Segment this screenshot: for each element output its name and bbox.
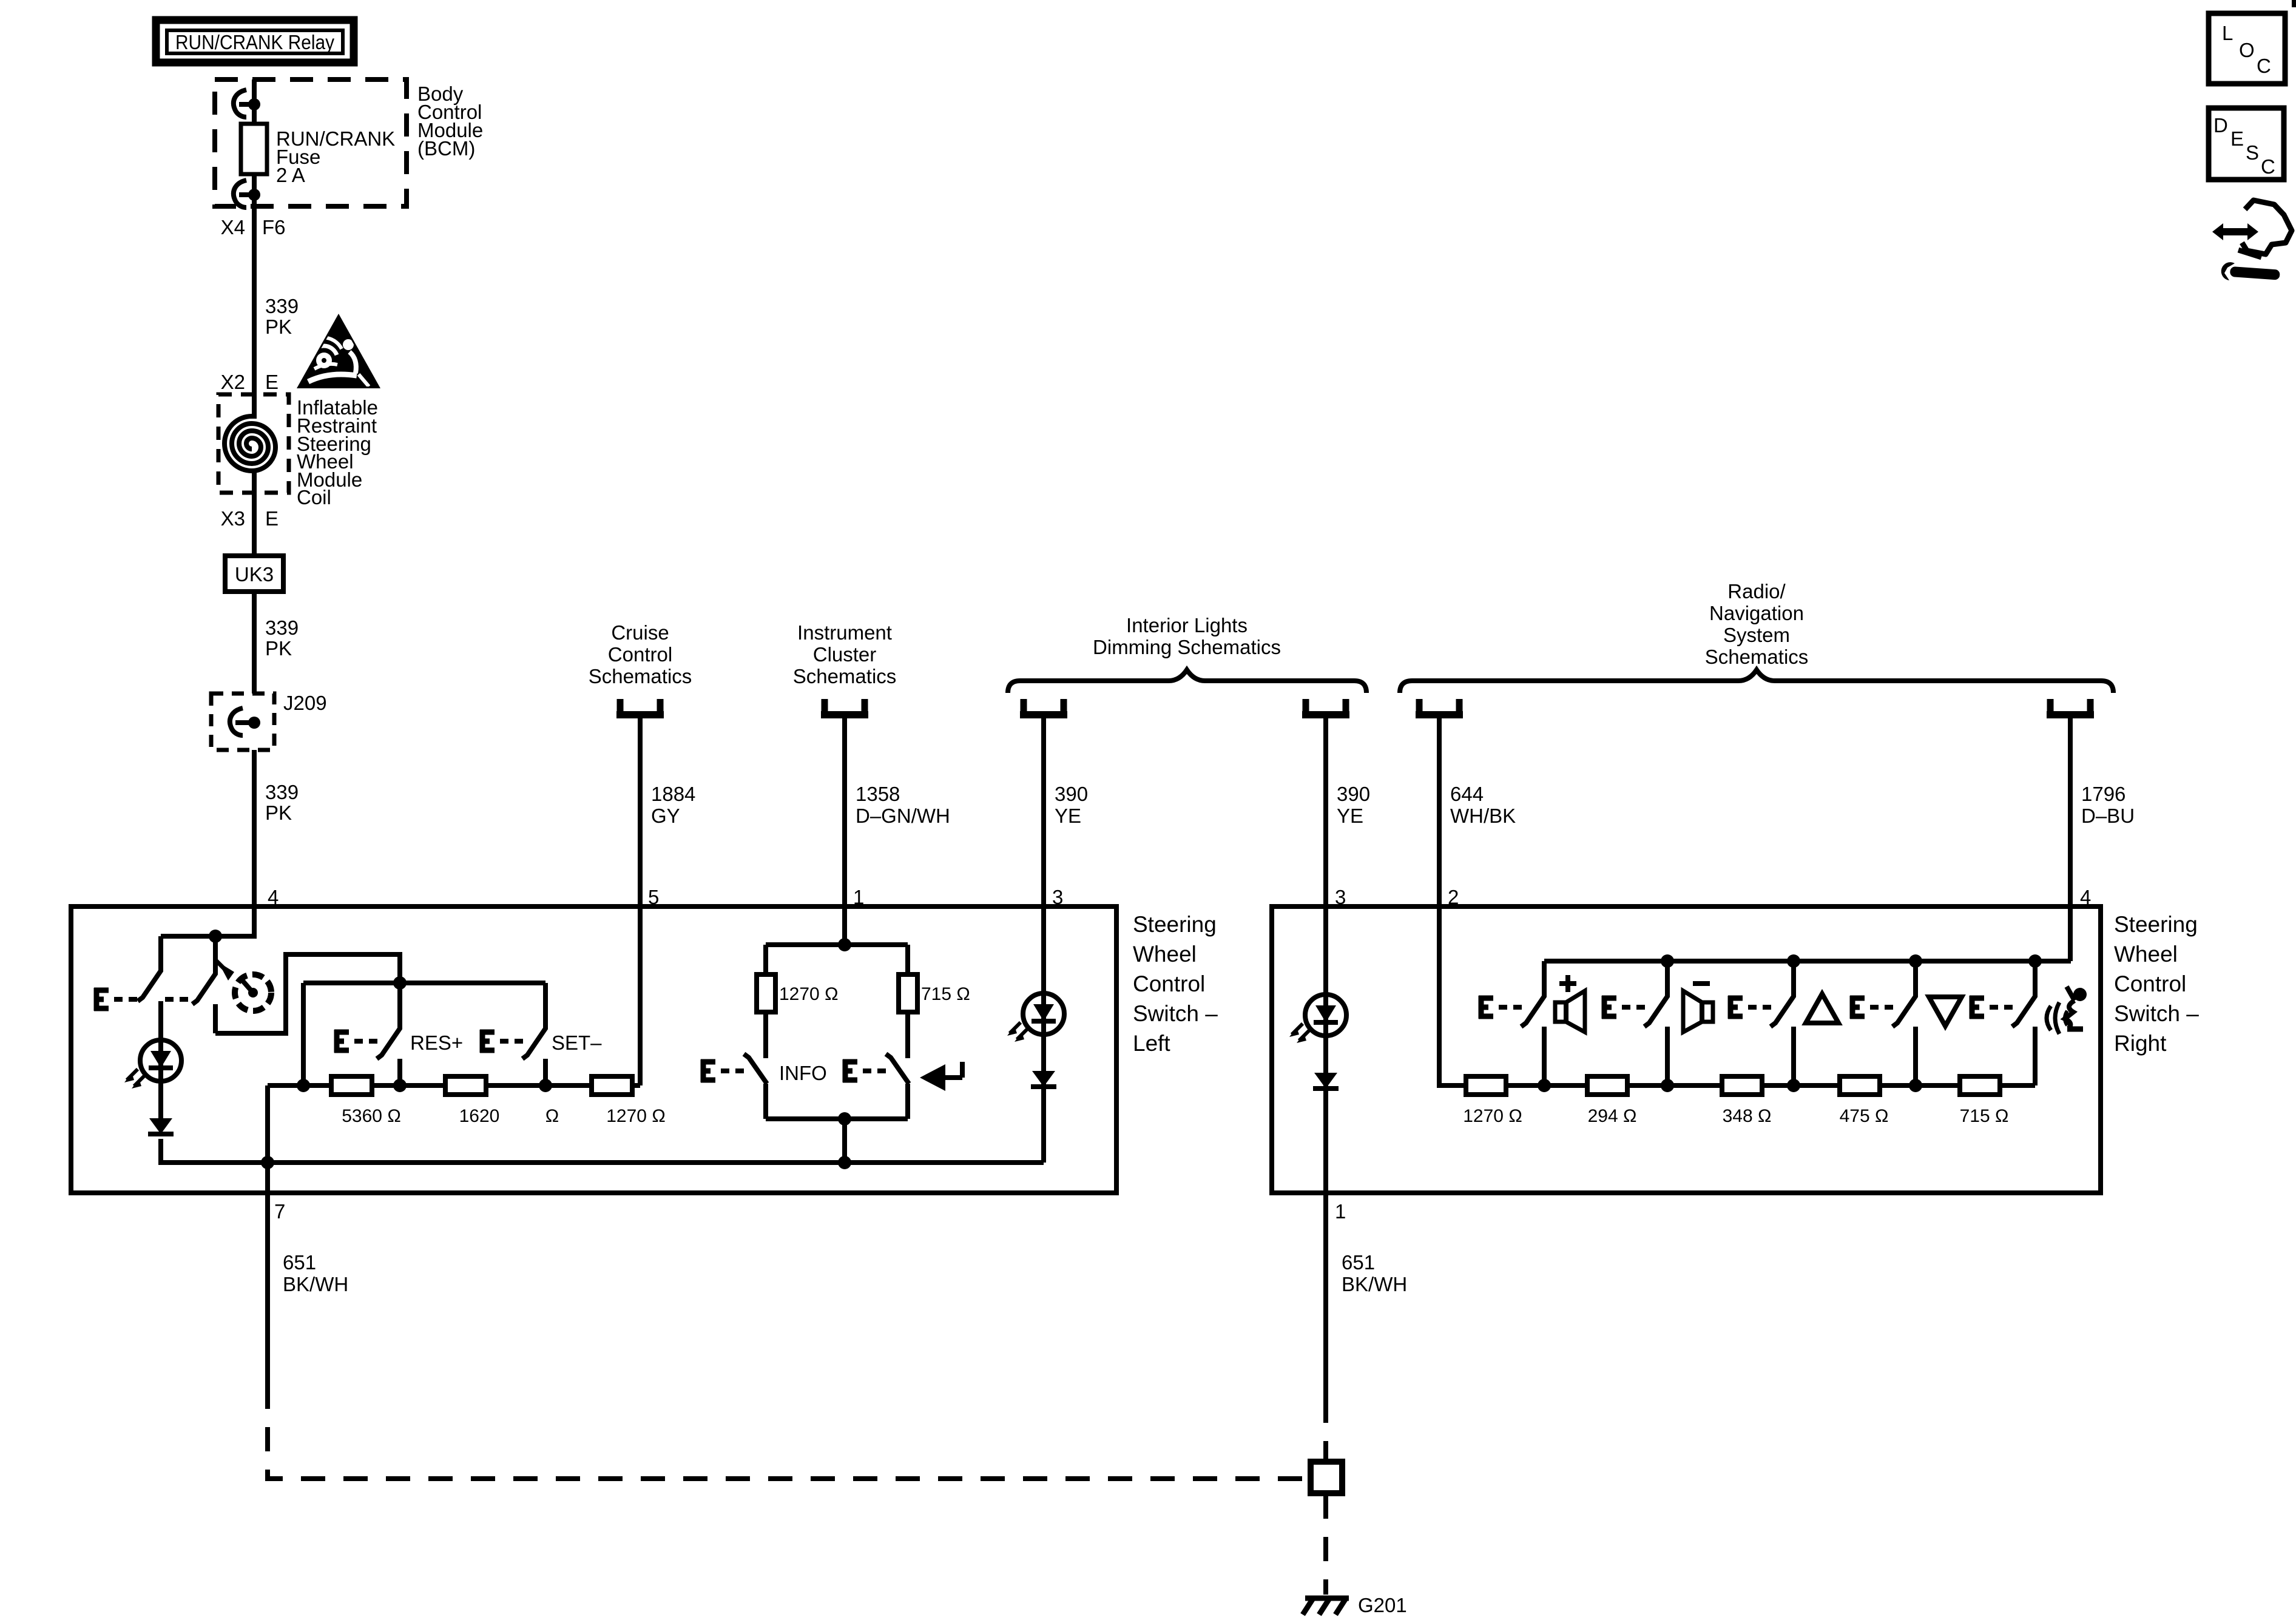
- node: chain junction 2: [1661, 1079, 1674, 1092]
- svg-text:X4: X4: [221, 216, 245, 238]
- brace: radio/navigation group: [1400, 670, 2113, 693]
- svg-text:339: 339: [265, 781, 299, 803]
- svg-text:L: L: [2222, 22, 2233, 44]
- switch: INFO: [744, 1054, 767, 1119]
- svg-text:E: E: [265, 371, 279, 393]
- airbag warning triangle: [297, 314, 380, 388]
- node: SET- bus junction: [539, 1079, 552, 1092]
- wire: bus left end down to pin 7: [265, 1085, 270, 1193]
- node: LED rail junction: [838, 1156, 851, 1169]
- resistor 1270 ohm (right box): [1466, 1076, 1506, 1095]
- svg-text:1358: 1358: [856, 783, 900, 805]
- svg-text:475 Ω: 475 Ω: [1840, 1106, 1889, 1126]
- resistor 294 ohm: [1587, 1076, 1627, 1095]
- svg-text:D–GN/WH: D–GN/WH: [856, 805, 950, 827]
- switch: enter: [886, 1054, 909, 1119]
- node: chain junction 4: [1909, 1079, 1922, 1092]
- resistor 1270 ohm (cruise): [592, 1076, 632, 1095]
- relay: RUN/CRANK Relay box: [156, 20, 354, 62]
- splice J209 dashed box: [211, 692, 327, 750]
- svg-text:RUN/CRANK Relay: RUN/CRANK Relay: [175, 31, 334, 53]
- svg-text:Dimming Schematics: Dimming Schematics: [1093, 636, 1281, 658]
- ground G201: [1303, 1594, 1407, 1616]
- node: INFO top junction: [838, 938, 851, 951]
- switch: cruise on/off contact A: [138, 936, 161, 1040]
- actuator E dashed line (cruise on/off): [94, 988, 188, 1011]
- resistor 715 ohm (enter branch): [905, 945, 910, 1058]
- switch: cruise on/off contact B: [192, 936, 215, 1033]
- node: chain junction 1: [1538, 1079, 1551, 1092]
- off-page connector: interior lights dimming (right): [1302, 699, 1349, 715]
- fuse block UK3: [225, 556, 283, 592]
- svg-text:Instrument: Instrument: [797, 621, 892, 644]
- wire: pin 4 feed to switch bus: [1544, 906, 2071, 961]
- svg-text:1796: 1796: [2081, 783, 2125, 805]
- svg-text:BK/WH: BK/WH: [283, 1273, 348, 1295]
- wire: cruise resistor bus: [268, 906, 640, 1085]
- wire: INFO bottom bridge: [766, 1116, 908, 1121]
- icon: triangle up: [1806, 994, 1838, 1023]
- wire: right resistor chain bus: [1506, 1027, 2035, 1085]
- svg-text:E: E: [265, 507, 279, 530]
- switch: RES+: [377, 983, 400, 1085]
- icon: LOC box: [2209, 13, 2285, 84]
- icon: enter arrow: [920, 1062, 962, 1091]
- svg-text:Interior Lights: Interior Lights: [1126, 614, 1248, 636]
- svg-text:651: 651: [283, 1251, 316, 1274]
- node: bus junction voice: [2028, 954, 2042, 968]
- wire: INFO junction down to LED rail: [842, 1119, 847, 1163]
- svg-text:E: E: [2230, 127, 2244, 150]
- node: INFO bottom junction: [838, 1112, 851, 1126]
- icon: cruise control gauge: [215, 960, 271, 1011]
- svg-text:1884: 1884: [651, 783, 695, 805]
- wire 651 BK/WH from pin 1: [1323, 1193, 1328, 1399]
- switch: seek up: [1771, 961, 1794, 1085]
- wire 651 BK/WH from pin 7: [265, 1193, 270, 1385]
- corner mark: [2292, 0, 2296, 7]
- svg-text:GY: GY: [651, 805, 680, 827]
- connector hook: BCM internal terminal (top): [234, 90, 260, 117]
- splice: [1311, 1462, 1342, 1493]
- svg-text:Cruise: Cruise: [611, 621, 669, 644]
- svg-text:X2: X2: [221, 371, 245, 393]
- svg-text:UK3: UK3: [235, 563, 274, 586]
- off-page connector: cruise control: [616, 699, 664, 715]
- icon: adjustable component (arrow/hand/wrench): [2212, 200, 2292, 280]
- icon: voice: [2047, 987, 2087, 1034]
- label: Instrument Cluster Schematics: [793, 621, 897, 687]
- wire 1884 GY to cruise control: [638, 718, 643, 906]
- svg-text:F6: F6: [262, 216, 286, 238]
- svg-text:C: C: [2261, 155, 2275, 178]
- switch: seek down: [1893, 961, 1916, 1085]
- switch: volume up: [1521, 961, 1544, 1085]
- svg-text:651: 651: [1342, 1251, 1375, 1274]
- svg-text:Cluster: Cluster: [813, 643, 877, 666]
- wire: dashed run from splice to ground: [1323, 1494, 1328, 1595]
- svg-text:Right: Right: [2114, 1031, 2167, 1056]
- svg-text:G201: G201: [1358, 1594, 1407, 1616]
- wire: pin 1 feed to INFO bridge: [766, 906, 908, 945]
- wire: pin 4 feed inside left box: [161, 906, 254, 936]
- svg-text:Control: Control: [608, 643, 672, 666]
- icon: triangle down: [1929, 997, 1962, 1026]
- svg-text:D: D: [2213, 114, 2228, 137]
- svg-text:Left: Left: [1133, 1031, 1170, 1056]
- connector hook: BCM internal terminal (bottom): [234, 180, 260, 208]
- fuse F6: RUN/CRANK Fuse 2 A: [241, 124, 395, 186]
- svg-text:SET–: SET–: [552, 1031, 602, 1054]
- svg-text:339: 339: [265, 616, 299, 639]
- node: feed junction: [209, 930, 222, 943]
- module: Body Control Module (BCM) dashed box: [215, 79, 407, 206]
- svg-text:Schematics: Schematics: [1705, 646, 1809, 668]
- LED: dimming illumination (right box): [1289, 994, 1346, 1043]
- wire: dashed run from pin 1 to splice: [1323, 1399, 1328, 1460]
- wire: switch B lower route (step): [215, 954, 400, 1033]
- wire: from coil to UK3: [252, 493, 257, 556]
- svg-text:Schematics: Schematics: [589, 665, 692, 687]
- svg-text:348 Ω: 348 Ω: [1723, 1106, 1772, 1126]
- svg-text:715 Ω: 715 Ω: [921, 984, 970, 1004]
- wire 1796 D-BU: [2068, 718, 2073, 906]
- svg-text:D–BU: D–BU: [2081, 805, 2135, 827]
- svg-text:7: 7: [274, 1200, 285, 1223]
- svg-text:Control: Control: [1133, 971, 1205, 996]
- svg-text:Navigation: Navigation: [1709, 602, 1804, 624]
- LED: cruise indicator: [124, 1040, 181, 1089]
- node: pin7/LED rail junction: [261, 1156, 274, 1169]
- diode: below cruise LED: [148, 1118, 174, 1134]
- node: bus junction seek up: [1787, 954, 1800, 968]
- coil spiral winding: [225, 416, 275, 471]
- wire 644 WH/BK: [1437, 718, 1442, 906]
- resistor 715 ohm (right box): [1960, 1076, 2000, 1095]
- resistor 348 ohm: [1722, 1076, 1762, 1095]
- node: chain junction 3: [1787, 1079, 1800, 1092]
- svg-text:1620: 1620: [459, 1106, 500, 1126]
- svg-text:339: 339: [265, 295, 299, 317]
- label: Interior Lights Dimming Schematics: [1093, 614, 1281, 658]
- wire: diode to bottom rail: [161, 1139, 1044, 1163]
- svg-text:Steering: Steering: [1133, 912, 1217, 937]
- node: RES+ riser junction: [393, 976, 407, 990]
- svg-text:PK: PK: [265, 637, 292, 660]
- LED: dimming illumination (left box): [1007, 993, 1064, 1042]
- svg-text:390: 390: [1055, 783, 1088, 805]
- diode: below dimming LED (right box): [1313, 1073, 1339, 1089]
- wire: through coil: [252, 394, 257, 493]
- svg-text:BK/WH: BK/WH: [1342, 1273, 1407, 1295]
- wire 1358 D-GN/WH to instrument cluster: [842, 718, 847, 906]
- icon: speaker +: [1555, 975, 1585, 1032]
- svg-text:1270 Ω: 1270 Ω: [606, 1106, 666, 1126]
- svg-text:Wheel: Wheel: [1133, 942, 1197, 967]
- svg-text:715 Ω: 715 Ω: [1960, 1106, 2009, 1126]
- label: Cruise Control Schematics: [589, 621, 692, 687]
- coil: Inflatable Restraint Steering Wheel Module Coil dashed box: [218, 394, 289, 493]
- svg-text:YE: YE: [1055, 805, 1081, 827]
- svg-text:Coil: Coil: [297, 486, 331, 508]
- svg-text:Switch –: Switch –: [2114, 1001, 2199, 1026]
- svg-text:Wheel: Wheel: [2114, 942, 2178, 967]
- svg-text:Steering: Steering: [2114, 912, 2198, 937]
- wire: J209 through to steering wheel switch left pin 4: [252, 750, 257, 906]
- node: bus junction vol-: [1661, 954, 1674, 968]
- svg-text:Radio/: Radio/: [1727, 580, 1786, 603]
- switch: volume down: [1644, 961, 1667, 1085]
- svg-text:294 Ω: 294 Ω: [1588, 1106, 1637, 1126]
- resistor 475 ohm: [1840, 1076, 1880, 1095]
- icon: speaker -: [1683, 984, 1713, 1032]
- switch: SET-: [522, 983, 545, 1085]
- node: RES+ bus junction: [393, 1079, 407, 1092]
- node: rail-bus junction: [297, 1079, 310, 1092]
- svg-text:S: S: [2246, 141, 2259, 164]
- svg-text:Control: Control: [2114, 971, 2186, 996]
- svg-text:1270 Ω: 1270 Ω: [1463, 1106, 1522, 1126]
- svg-text:644: 644: [1450, 783, 1484, 805]
- switch: voice recognition: [2012, 961, 2035, 1085]
- svg-text:PK: PK: [265, 316, 292, 338]
- svg-text:1: 1: [1335, 1200, 1346, 1223]
- svg-text:C: C: [2257, 55, 2271, 77]
- resistor 1620 ohm: [445, 1076, 486, 1095]
- svg-text:J209: J209: [283, 692, 327, 714]
- svg-text:WH/BK: WH/BK: [1450, 805, 1516, 827]
- svg-text:O: O: [2239, 39, 2255, 61]
- wire: UK3 down to J209: [252, 592, 257, 694]
- wire: pin 3 feed through dimming LED (right box): [1323, 906, 1328, 1193]
- svg-text:Schematics: Schematics: [793, 665, 897, 687]
- off-page connector: interior lights dimming (left): [1020, 699, 1067, 715]
- node: bus junction seek down: [1909, 954, 1922, 968]
- wire: rail to SET-: [303, 983, 545, 1085]
- svg-text:System: System: [1723, 624, 1790, 646]
- off-page connector: radio/navigation (left): [1416, 699, 1463, 715]
- wire 390 YE (right): [1323, 718, 1328, 906]
- wire: on/off to LED to diode: [158, 1040, 163, 1118]
- wire: pin 3 feed through dimming LED: [1041, 906, 1046, 1163]
- off-page connector: instrument cluster: [821, 699, 868, 715]
- svg-text:INFO: INFO: [779, 1062, 827, 1084]
- svg-text:Switch –: Switch –: [1133, 1001, 1218, 1026]
- diode: below dimming LED (left box): [1031, 1071, 1056, 1087]
- wire: dashed run from pin 7 to splice: [268, 1385, 1309, 1479]
- svg-text:PK: PK: [265, 802, 292, 824]
- svg-text:1270 Ω: 1270 Ω: [779, 984, 839, 1004]
- brace: interior lights dimming group: [1008, 670, 1366, 693]
- wire: pin 2 feed to resistor chain: [1439, 906, 1466, 1085]
- wire: vertical feed from BCM through fuse down to pin X4/F6: [252, 79, 257, 394]
- svg-text:(BCM): (BCM): [417, 137, 475, 160]
- box: Steering Wheel Control Switch - Left: [71, 906, 1116, 1193]
- svg-text:2 A: 2 A: [276, 164, 305, 186]
- box: Steering Wheel Control Switch - Right: [1272, 906, 2101, 1193]
- svg-text:Ω: Ω: [545, 1106, 559, 1126]
- svg-text:X3: X3: [221, 507, 245, 530]
- svg-text:390: 390: [1337, 783, 1370, 805]
- svg-text:5360 Ω: 5360 Ω: [342, 1106, 401, 1126]
- wire 390 YE (left): [1041, 718, 1046, 906]
- svg-text:RES+: RES+: [410, 1031, 463, 1054]
- resistor 1270 ohm (INFO branch): [763, 945, 768, 1058]
- icon: DESC box: [2209, 108, 2284, 180]
- off-page connector: radio/navigation (right): [2047, 699, 2094, 715]
- svg-text:YE: YE: [1337, 805, 1363, 827]
- label: Radio/Navigation System Schematics: [1705, 580, 1809, 668]
- resistor 5360 ohm: [331, 1076, 372, 1095]
